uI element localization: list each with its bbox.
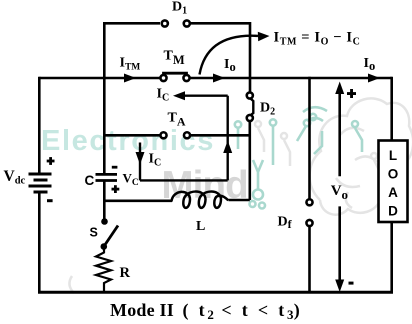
wire right rail bottom bbox=[390, 221, 393, 292]
wire Ic loop top bbox=[177, 94, 228, 96]
arrow Io on rail (right) bbox=[368, 74, 380, 83]
arrow Ic up (right side) bbox=[223, 141, 232, 154]
load box letters bbox=[388, 148, 399, 219]
svg-text:Electronics: Electronics bbox=[41, 125, 215, 157]
arrow Io on rail (mid) bbox=[213, 74, 225, 83]
svg-text:D: D bbox=[388, 204, 398, 219]
Ic loop indicator bbox=[140, 96, 228, 181]
inductor L bbox=[172, 192, 229, 208]
arrow Ic down (left side) bbox=[136, 152, 145, 165]
switch S lower terminal bbox=[101, 243, 108, 250]
svg-text:S: S bbox=[90, 226, 98, 240]
capacitor C plates bbox=[96, 174, 118, 180]
wire TA row bbox=[104, 134, 160, 137]
svg-text:O: O bbox=[388, 167, 399, 182]
resistor R bbox=[96, 247, 111, 293]
wire left branch vertical bbox=[103, 23, 106, 173]
svg-text:R: R bbox=[120, 265, 131, 281]
svg-text:Mode II( t2 < t < t3): Mode II( t2 < t < t3) bbox=[110, 300, 300, 322]
svg-text:C: C bbox=[85, 173, 95, 188]
wire Ic loop left bbox=[139, 143, 141, 181]
switch S blade bbox=[104, 226, 118, 247]
wire left rail bbox=[38, 77, 41, 174]
arrow ITM on rail bbox=[124, 74, 136, 83]
wire D1 top right bbox=[190, 23, 250, 91]
diode Df terminals bbox=[306, 199, 312, 205]
minus Vo bbox=[349, 282, 354, 285]
thyristor TM terminals bbox=[160, 75, 166, 81]
cap minus bbox=[112, 166, 118, 169]
wire bottom rail main bbox=[38, 291, 393, 294]
arrow Vo up bbox=[338, 90, 341, 176]
wire capacitor to switch bbox=[103, 182, 106, 222]
plus Vo bbox=[347, 89, 356, 98]
svg-text:L: L bbox=[389, 148, 397, 163]
thyristor TA terminals bbox=[160, 132, 166, 138]
battery minus bbox=[47, 199, 53, 202]
wire main rail right bbox=[190, 77, 392, 80]
thyristor TM bridge bbox=[164, 73, 187, 75]
wire D2 branch lower bbox=[249, 122, 252, 200]
wire D1 top left bbox=[103, 22, 160, 25]
wire main rail left bbox=[39, 77, 160, 80]
diode D2 blade bbox=[251, 99, 254, 116]
battery plus bbox=[47, 157, 55, 165]
watermark circuit-board graphic bbox=[69, 98, 412, 293]
arrow Vo down bbox=[338, 206, 341, 283]
load box bbox=[379, 141, 408, 223]
svg-text:L: L bbox=[196, 219, 205, 234]
diode D1 terminals bbox=[162, 20, 168, 26]
svg-text:Io: Io bbox=[224, 57, 236, 74]
arrow Ic left (top arrow) bbox=[173, 91, 185, 100]
curved arrow to equation bbox=[200, 36, 259, 75]
wire to inductor bbox=[104, 200, 172, 203]
svg-text:A: A bbox=[388, 185, 398, 200]
svg-text:Io: Io bbox=[364, 56, 376, 73]
wire right rail top bbox=[390, 77, 393, 141]
wire Df branch bbox=[308, 77, 311, 199]
wire Ic loop right bbox=[226, 96, 228, 181]
switch S bbox=[101, 218, 108, 225]
battery Vdc bbox=[29, 174, 52, 192]
svg-text:Df: Df bbox=[278, 215, 293, 232]
diode D2 terminals bbox=[247, 92, 253, 98]
cap plus bbox=[112, 185, 120, 193]
wire inductor right bbox=[229, 199, 250, 202]
wire Ic loop bottom bbox=[140, 179, 228, 181]
